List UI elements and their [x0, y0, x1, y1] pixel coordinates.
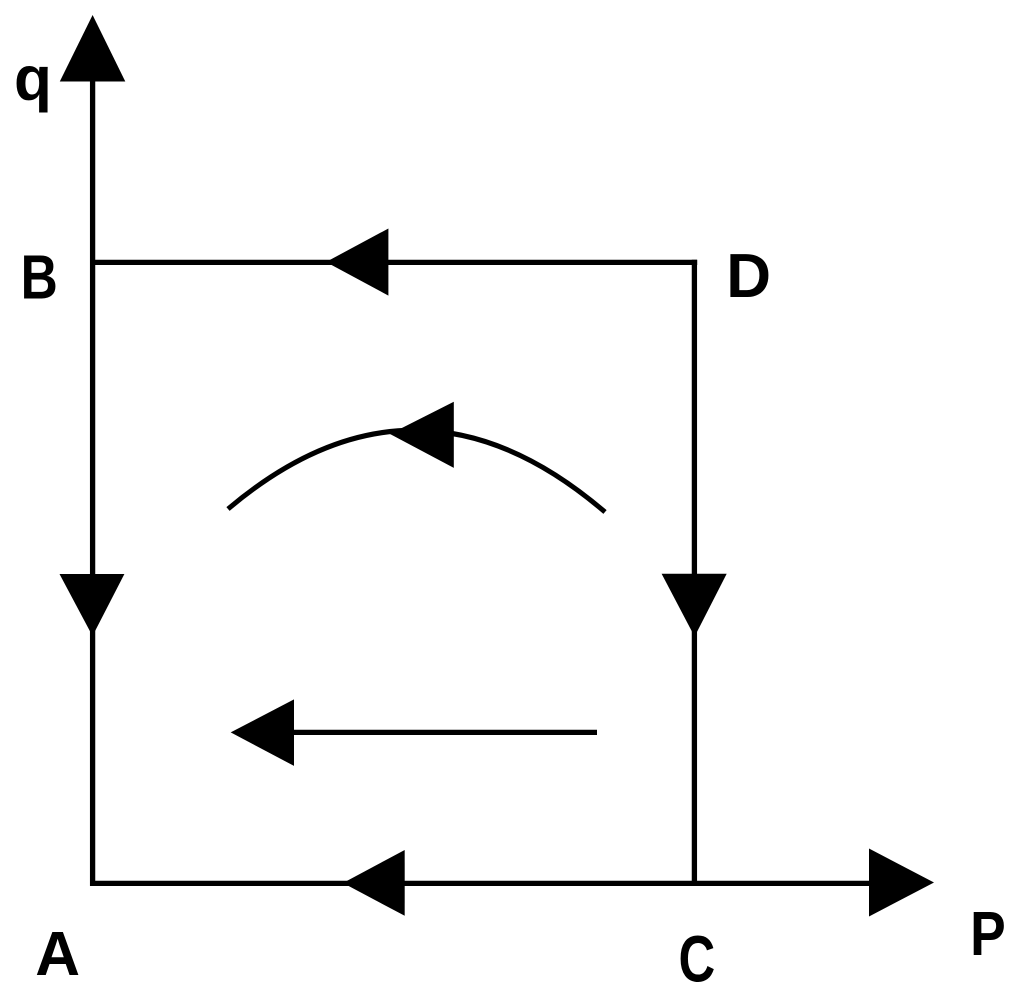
- svg-text:q: q: [14, 45, 52, 114]
- svg-text:P: P: [970, 900, 1006, 969]
- svg-text:B: B: [21, 243, 58, 313]
- svg-text:A: A: [35, 920, 80, 989]
- svg-text:C: C: [679, 923, 716, 996]
- svg-text:D: D: [726, 242, 771, 311]
